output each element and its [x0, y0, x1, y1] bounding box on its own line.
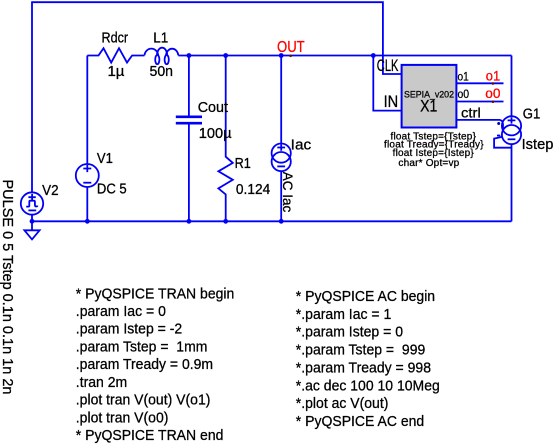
svg-text:Cout: Cout [198, 100, 228, 116]
svg-text:100µ: 100µ [199, 126, 232, 142]
svg-text:DC 5: DC 5 [97, 182, 127, 198]
svg-text:1µ: 1µ [108, 64, 126, 80]
svg-text:*.param Tstep = 999: *.param Tstep = 999 [296, 342, 426, 359]
svg-text:o1: o1 [458, 69, 469, 83]
svg-text:V1: V1 [97, 151, 113, 167]
svg-text:*.param Tready = 998: *.param Tready = 998 [296, 359, 431, 376]
svg-text:PULSE 0 5 Tstep 0.1n 0.1n 1n 2: PULSE 0 5 Tstep 0.1n 0.1n 1n 2n [0, 180, 15, 395]
svg-text:o0: o0 [485, 86, 500, 101]
svg-text:L1: L1 [153, 31, 168, 47]
svg-text:* PyQSPICE AC end: * PyQSPICE AC end [296, 413, 424, 430]
svg-text:.param Istep = -2: .param Istep = -2 [76, 321, 182, 338]
svg-text:o1: o1 [486, 68, 500, 83]
svg-text:* PyQSPICE AC begin: * PyQSPICE AC begin [296, 288, 435, 305]
svg-text:.plot tran V(o0): .plot tran V(o0) [76, 409, 169, 426]
svg-text:.plot tran V(out) V(o1): .plot tran V(out) V(o1) [76, 392, 211, 409]
svg-text:ctrl: ctrl [461, 104, 481, 120]
svg-text:.param Tstep = 1mm: .param Tstep = 1mm [76, 338, 208, 355]
svg-text:Iac: Iac [291, 138, 312, 154]
svg-text:X1: X1 [420, 98, 437, 116]
svg-text:* PyQSPICE TRAN begin: * PyQSPICE TRAN begin [76, 285, 235, 302]
svg-text:Rdcr: Rdcr [102, 31, 129, 47]
svg-text:.param Iac = 0: .param Iac = 0 [76, 303, 166, 320]
svg-text:50n: 50n [150, 64, 174, 80]
svg-text:*.ac dec 100 10 10Meg: *.ac dec 100 10 10Meg [296, 377, 440, 394]
svg-text:IN: IN [384, 93, 399, 111]
svg-text:Istep: Istep [522, 137, 554, 153]
svg-text:char* Opt=vp: char* Opt=vp [398, 158, 459, 169]
svg-text:*.param Iac = 1: *.param Iac = 1 [296, 306, 392, 323]
svg-text:* PyQSPICE TRAN end: * PyQSPICE TRAN end [76, 427, 224, 444]
svg-text:AC Iac: AC Iac [280, 172, 295, 213]
svg-text:G1: G1 [523, 107, 541, 123]
svg-text:o0: o0 [458, 87, 470, 101]
svg-text:0.124: 0.124 [236, 182, 270, 198]
svg-text:V2: V2 [42, 183, 59, 199]
svg-text:.tran 2m: .tran 2m [76, 374, 127, 391]
svg-text:OUT: OUT [277, 39, 305, 56]
svg-text:.param Tready = 0.9m: .param Tready = 0.9m [76, 356, 213, 373]
svg-text:CLK: CLK [377, 57, 399, 75]
svg-text:*.plot ac V(out): *.plot ac V(out) [296, 395, 389, 412]
svg-text:R1: R1 [235, 156, 251, 172]
svg-text:*.param Istep = 0: *.param Istep = 0 [296, 324, 403, 341]
